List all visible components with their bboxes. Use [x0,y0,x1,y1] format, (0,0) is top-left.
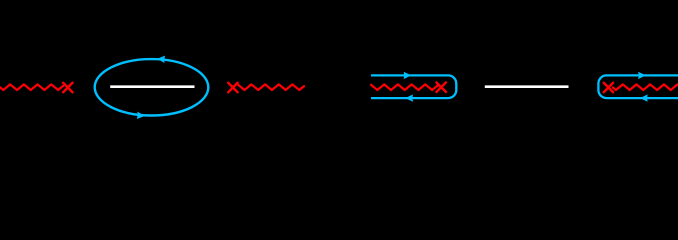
vertex cross X1 (end of left photon line) [63,83,72,92]
fermion loop, left stadium (open left) [371,75,456,98]
loop arrow top (pointing left) [157,55,165,63]
counterterm bar inside loop [110,85,194,88]
stadium2 arrow bottom (pointing left) [640,94,648,101]
vertex cross X2 (start of right photon line) [228,83,237,92]
stadium2 arrow top (pointing right) [638,72,646,79]
photon wavy line inside left stadium [371,84,438,90]
loop arrow bottom (pointing right) [137,112,145,120]
fermion loop ellipse [95,59,209,115]
stadium1 arrow top (pointing right) [404,72,412,79]
vertex cross X3 [437,83,446,92]
photon wavy line (left external) [0,84,63,90]
counterterm bar between stadiums [485,85,569,88]
photon wavy line inside right stadium [613,84,678,90]
stadium1 arrow bottom (pointing left) [405,94,413,101]
vertex cross X4 [604,83,613,92]
fermion loop, right stadium (open right) [598,75,678,98]
photon wavy line (right external) [238,84,304,90]
